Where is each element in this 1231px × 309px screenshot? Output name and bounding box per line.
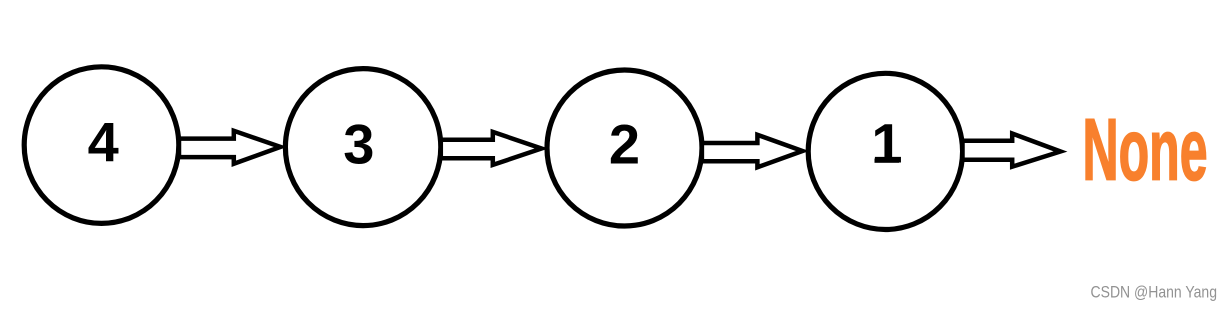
foot of digit 1 [875,159,900,163]
arrow 1 to None [963,134,1061,167]
svg-text:3: 3 [343,113,374,176]
svg-text:2: 2 [609,113,640,176]
node circle 4 [24,67,179,224]
arrow 3 to 2 [441,132,542,165]
svg-text:4: 4 [88,111,119,174]
svg-text:None: None [1083,102,1208,199]
svg-text:CSDN @Hann Yang: CSDN @Hann Yang [1091,282,1218,301]
arrow 4 to 3 [179,131,281,164]
node circle 2 [547,70,702,226]
svg-text:1: 1 [871,112,902,175]
arrow 2 to 1 [702,135,803,168]
node circle 3 [285,69,440,226]
node circle 1 [808,73,962,229]
